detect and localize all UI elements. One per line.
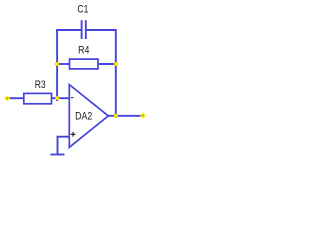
wire: ground drop vertical bbox=[57, 136, 59, 155]
svg-text:R3: R3 bbox=[35, 79, 46, 91]
junction dot output bbox=[114, 114, 118, 118]
svg-text:C1: C1 bbox=[77, 4, 88, 16]
junction dot left R4 rail bbox=[55, 62, 59, 66]
wire: top feedback rail left segment bbox=[56, 29, 81, 31]
wire: R4 rail left segment bbox=[56, 63, 69, 65]
junction dot right R4 rail bbox=[114, 62, 118, 66]
wire: top feedback rail right segment bbox=[86, 29, 116, 31]
pin label minus bbox=[71, 97, 74, 99]
wire: left vertical feedback bbox=[56, 29, 58, 101]
op-amp DA2 bbox=[69, 85, 108, 148]
svg-text:R4: R4 bbox=[78, 45, 90, 57]
junction dot inverting input bbox=[55, 96, 59, 100]
wire: output bbox=[108, 115, 143, 117]
pin label plus bbox=[71, 132, 76, 137]
terminal input left bbox=[4, 95, 10, 101]
wire: input to R3 bbox=[9, 97, 24, 99]
wire: R3 to inverting input bbox=[52, 97, 70, 99]
wire: R4 rail right segment bbox=[98, 63, 117, 65]
wire: non-inverting input horizontal bbox=[57, 136, 69, 138]
svg-text:DA2: DA2 bbox=[75, 111, 93, 123]
wire: right vertical feedback bbox=[115, 29, 117, 116]
terminal output right bbox=[140, 113, 146, 119]
capacitor C1 bbox=[82, 20, 86, 39]
resistor R4 bbox=[70, 59, 99, 69]
resistor R3 bbox=[24, 93, 52, 103]
ground bbox=[50, 154, 64, 156]
